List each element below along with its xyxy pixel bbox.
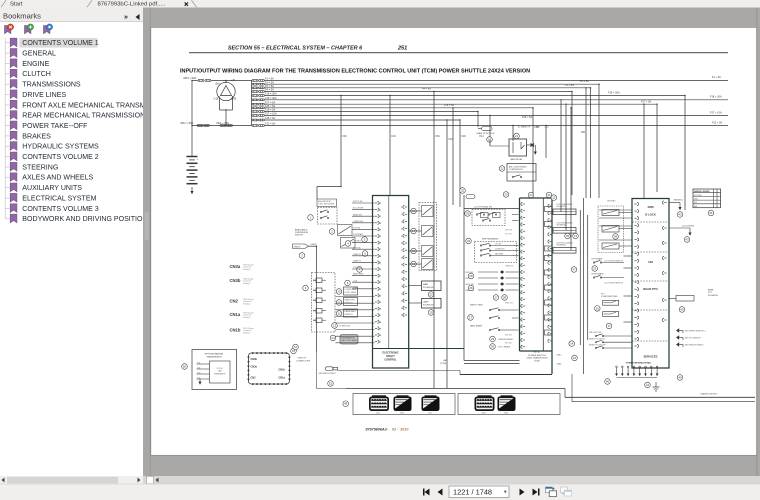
EDC internal divider: [388, 196, 390, 349]
svg-text:DRAFT PIN: DRAFT PIN: [345, 299, 356, 302]
chain detection sensor: [482, 127, 493, 131]
callout 25: [468, 273, 474, 279]
svg-text:CN1a: CN1a: [230, 312, 241, 317]
svg-text:35: 35: [566, 234, 570, 238]
svg-text:(+D): (+D): [214, 98, 219, 101]
engine rpm switch block S1: [317, 199, 337, 207]
wire from fuse MF3 down to battery rail: [191, 81, 193, 126]
callout 12: [336, 311, 342, 317]
callout 11: [336, 300, 342, 306]
bus wire F37: [265, 115, 729, 117]
svg-text:CN1b: CN1b: [557, 363, 562, 365]
svg-text:GND PTO SENSOR: GND PTO SENSOR: [685, 338, 702, 340]
svg-text:GENERAL: GENERAL: [22, 51, 56, 58]
svg-text:28: 28: [503, 296, 507, 300]
svg-text:251: 251: [397, 46, 407, 52]
ground district connector: [326, 367, 334, 371]
pdf page: [151, 27, 757, 455]
svg-text:CLUTCH PEDAL SW: CLUTCH PEDAL SW: [474, 206, 492, 209]
connector photo CN3: [422, 397, 440, 412]
svg-text:FOOT BRAKE: FOOT BRAKE: [498, 346, 511, 349]
callout 38b: [613, 234, 619, 240]
svg-text:F64: F64: [436, 135, 441, 138]
callout 9: [303, 285, 309, 291]
wire trunk x316 down: [316, 246, 318, 352]
svg-text:Start: Start: [10, 2, 23, 8]
svg-text:48: 48: [344, 402, 348, 406]
ETC pin blocks: [545, 207, 553, 212]
svg-text:POSITION: POSITION: [353, 267, 362, 269]
relay KR1: [422, 206, 434, 217]
svg-text:FRONT AXLE MECHANICAL TRANSMIS: FRONT AXLE MECHANICAL TRANSMIS: [22, 102, 152, 109]
wire stub to EDC pin 33: [352, 222, 375, 224]
callout 37: [571, 267, 577, 273]
bookmarks sidebar background: [0, 8, 143, 485]
svg-text:SENSOR: SENSOR: [345, 314, 354, 316]
mode selector (gray): [340, 335, 358, 345]
svg-text:REAR: REAR: [708, 289, 714, 292]
wire stub to EDC pin 42: [352, 281, 375, 283]
wire stub to EDC pin 36: [352, 242, 375, 244]
svg-text:1221 / 1748: 1221 / 1748: [453, 488, 492, 497]
svg-text:CN2: CN2: [428, 412, 431, 414]
svg-text:F27 + 5A: F27 + 5A: [641, 100, 652, 103]
svg-text:RAISE RATE: RAISE RATE: [353, 273, 364, 276]
svg-text:14: 14: [331, 336, 335, 340]
nav: next page button: [520, 489, 525, 496]
callout 36: [573, 233, 579, 239]
bookmark item: CONTENTS VOLUME 3: [5, 207, 9, 209]
wire drop x=685: [684, 96, 686, 211]
wire drop x=546: [545, 126, 547, 159]
callout 13c: [592, 266, 598, 272]
svg-text:F37 + 10A: F37 + 10A: [710, 111, 722, 114]
svg-text:CN2: CN2: [230, 298, 239, 303]
svg-text:13: 13: [593, 267, 597, 271]
wire alternator right leg: [232, 97, 234, 110]
callout 24: [528, 192, 534, 198]
nav: page number box: [449, 486, 509, 498]
bookmark item: CONTENTS VOLUME 1: [5, 42, 9, 44]
svg-text:29: 29: [491, 337, 495, 341]
fuse F2: [252, 83, 254, 85]
callout 8: [345, 280, 351, 286]
wire stub to EDC pin: [336, 342, 375, 344]
wire stub to EDC pin: [336, 309, 375, 311]
speed sensor connector: [293, 244, 309, 248]
svg-text:26: 26: [469, 286, 473, 290]
svg-text:F4 = 5A: F4 = 5A: [422, 88, 431, 91]
wire stub to EDC pin: [336, 335, 375, 337]
svg-text:49: 49: [678, 376, 682, 380]
svg-text:4WD: 4WD: [647, 205, 653, 209]
svg-text:CN3b: CN3b: [230, 278, 241, 283]
fuse F1: [252, 80, 254, 82]
wire stub to EDC pin: [336, 322, 375, 324]
nav: new window icon: [546, 487, 553, 493]
svg-text:CN2: CN2: [251, 376, 257, 379]
bookmark item: CONTENTS VOLUME 2: [5, 156, 9, 158]
callout 20: [487, 137, 493, 143]
svg-text:19: 19: [429, 311, 433, 315]
gnd row 2: [676, 335, 679, 339]
callout 4: [345, 241, 351, 247]
wire ETC to solenoid: [552, 229, 553, 231]
svg-text:TRANSMISSIONS: TRANSMISSIONS: [22, 82, 81, 89]
svg-text:Polarity 5: Polarity 5: [243, 332, 251, 335]
bookmark item: POWER TAKE--OFF: [5, 125, 9, 127]
potentiometer P2: [316, 288, 322, 293]
sensor box B: [344, 298, 358, 306]
main relay K3: [509, 139, 527, 156]
wire stub to EDC pin: [336, 302, 375, 304]
svg-text:SOLENOID: SOLENOID: [423, 287, 434, 289]
potentiometer P5: [316, 318, 322, 323]
svg-text:Polarity 5: Polarity 5: [243, 268, 251, 271]
potentiometer P1: [316, 278, 322, 283]
header rule: [189, 52, 728, 54]
callout 31: [546, 192, 552, 198]
svg-text:F12: F12: [449, 138, 454, 141]
svg-text:D-LOCK: D-LOCK: [645, 213, 656, 217]
svg-text:4WD SW: 4WD SW: [505, 230, 512, 232]
svg-text:F16: F16: [343, 135, 348, 138]
bookmark item: GENERAL: [5, 52, 9, 54]
4WD/PTO control unit box: [632, 199, 669, 369]
fuse F12: [252, 125, 254, 127]
ETC control unit outline: [520, 197, 553, 199]
bus wire F28: [265, 119, 461, 121]
svg-text:MAIN RELAY: MAIN RELAY: [511, 158, 524, 161]
callout 1: [308, 215, 314, 221]
svg-text:34: 34: [467, 239, 471, 243]
callout 21: [514, 133, 520, 139]
svg-text:REAR PTO: REAR PTO: [643, 287, 658, 291]
svg-text:PTO: PTO: [708, 292, 712, 294]
callout 20b: [428, 292, 434, 298]
shift switch 1: [480, 245, 481, 246]
svg-text:CN2: CN2: [197, 367, 200, 369]
wire drop x=571: [570, 108, 572, 251]
callout 32: [460, 188, 466, 194]
bookmark item: BODYWORK AND DRIVING POSITION: [5, 218, 9, 220]
svg-text:17: 17: [469, 316, 473, 320]
callout 48: [343, 401, 349, 407]
svg-text:Polarity 5: Polarity 5: [243, 282, 251, 285]
svg-text:CN3a: CN3a: [230, 264, 241, 269]
callout 7: [357, 267, 363, 273]
svg-text:CONTENTS VOLUME 1: CONTENTS VOLUME 1: [22, 40, 98, 47]
svg-text:02 – 2010: 02 – 2010: [392, 428, 409, 432]
svg-text:REAR PTO SW ON: REAR PTO SW ON: [589, 338, 605, 341]
svg-text:WIRING LEGEND: WIRING LEGEND: [694, 191, 710, 193]
svg-text:SETUP SW: SETUP SW: [353, 201, 363, 203]
callout 5: [362, 237, 368, 243]
bookmark item: AUXILIARY UNITS: [5, 187, 9, 189]
svg-text:LOWER SW: LOWER SW: [353, 221, 363, 223]
svg-text:CN3b: CN3b: [504, 412, 508, 414]
svg-text:GROUND DISTRICT: GROUND DISTRICT: [319, 373, 337, 375]
wire ground district to rail: [338, 370, 461, 372]
svg-text:D-LOCK4SOL: D-LOCK4SOL: [682, 226, 696, 228]
callout 33: [465, 211, 471, 217]
wires top cluster: [489, 140, 491, 146]
callout 34: [466, 238, 472, 244]
fuse F16: [252, 95, 254, 97]
legend table: [693, 189, 721, 208]
pdf viewing area background: [151, 8, 760, 477]
svg-text:SOLENOID: SOLENOID: [557, 225, 567, 227]
svg-text:GND: GND: [353, 287, 358, 289]
bookmark item: TRANSMISSIONS: [5, 83, 9, 85]
bus wire F25: [265, 107, 534, 109]
svg-text:44: 44: [646, 383, 650, 387]
svg-text:POS/DRAFT: POS/DRAFT: [353, 233, 364, 236]
connector photos group 2: [458, 394, 560, 415]
svg-text:SIG GND: SIG GND: [353, 247, 361, 249]
ETC pin column: [521, 202, 523, 205]
svg-text:15: 15: [573, 356, 577, 360]
svg-text:TRAILER BRAKE: TRAILER BRAKE: [498, 338, 514, 341]
bookmark item: CLUTCH: [5, 73, 9, 75]
wire drop x=447: [446, 120, 448, 389]
4wd relay 1: [602, 210, 619, 216]
wire stub to EDC pin 31: [352, 209, 375, 211]
status bar: [0, 484, 760, 500]
4wd box pins right: [662, 201, 664, 204]
svg-text:»: »: [124, 14, 128, 21]
wire stub to EDC pin 34: [352, 228, 375, 230]
svg-text:CN1b: CN1b: [230, 327, 241, 332]
svg-text:F25 = 5A: F25 = 5A: [444, 104, 455, 107]
bus wire F2: [265, 83, 600, 85]
svg-text:F18 + 30A: F18 + 30A: [710, 96, 722, 99]
panel splitter: [143, 8, 151, 477]
callout 14: [330, 335, 336, 341]
bookmark item: HYDRAULIC SYSTEMS: [5, 145, 9, 147]
4wd switch dotted box: [598, 206, 624, 253]
svg-text:CONTENTS VOLUME 2: CONTENTS VOLUME 2: [22, 154, 98, 161]
ETC internal divider: [542, 198, 544, 351]
svg-text:ENGINE: ENGINE: [22, 61, 49, 68]
bookmark item: ENGINE: [5, 63, 9, 65]
bookmarks panel header: [0, 8, 143, 22]
callout 22: [499, 166, 505, 172]
svg-text:GEAR SIG: GEAR SIG: [505, 265, 514, 268]
svg-text:CN3: CN3: [197, 372, 200, 374]
lamp solenoid box: [422, 299, 442, 309]
wire stub to EDC pin 35: [352, 235, 375, 237]
svg-text:(+W): (+W): [231, 98, 236, 101]
potentiometer P3: [316, 298, 322, 303]
wire stub to EDC pin: [336, 296, 375, 298]
svg-text:SOLENOID: SOLENOID: [423, 305, 434, 307]
svg-text:41: 41: [709, 211, 713, 215]
svg-text:COMPRESSOR: COMPRESSOR: [509, 169, 523, 171]
bookmark item: FRONT AXLE MECHANICAL TRANSMIS: [5, 104, 9, 106]
bus wire F19: [265, 111, 479, 113]
svg-text:POSIT. SENS: POSIT. SENS: [345, 292, 357, 294]
connector pinout view: [248, 353, 289, 384]
wire stub to EDC pin 37: [352, 248, 375, 250]
svg-text:CONTROL: CONTROL: [384, 359, 397, 362]
svg-text:GND: GND: [694, 199, 699, 201]
bus wire F4: [265, 91, 573, 93]
callout 30: [490, 344, 496, 350]
tab: Start: [1, 0, 6, 7]
node F16 corner into switch cluster: [317, 186, 341, 188]
svg-text:8767993bC-Linked pdf.....: 8767993bC-Linked pdf.....: [98, 2, 166, 8]
svg-text:(POWER SHUTTLE: (POWER SHUTTLE: [528, 355, 547, 357]
callout 15: [291, 348, 297, 354]
connector photos group 1: [353, 394, 455, 415]
svg-text:HM: HM: [648, 260, 653, 264]
svg-text:SLIP SW: SLIP SW: [353, 228, 361, 230]
callout 17b: [468, 315, 474, 321]
svg-text:F12 + 5A: F12 + 5A: [712, 121, 723, 124]
svg-text:LAP: LAP: [443, 359, 448, 362]
callout 3: [299, 253, 305, 259]
callout 14c: [569, 341, 575, 347]
svg-text:Bookmarks: Bookmarks: [3, 12, 41, 21]
svg-text:BODYWORK AND DRIVING POSITION: BODYWORK AND DRIVING POSITION: [22, 216, 147, 223]
relay KR3: [422, 246, 434, 257]
ETC pin column right edge: [548, 204, 550, 207]
wire drop x=513: [512, 126, 514, 140]
wire stub to EDC pin 30: [352, 202, 375, 204]
svg-text:SYSTEM: SYSTEM: [694, 195, 702, 197]
wire stub to EDC pin 43: [352, 288, 375, 290]
svg-text:MAIN: MAIN: [423, 283, 429, 286]
wire stub to EDC pin 41: [352, 275, 375, 277]
potentiometer P4: [316, 309, 322, 314]
fuse F28: [252, 119, 254, 121]
svg-text:BRAKES: BRAKES: [22, 133, 51, 140]
wire stub to EDC pin 38: [352, 255, 375, 257]
svg-text:INPUT/OUTPUT WIRING DIAGRAM FO: INPUT/OUTPUT WIRING DIAGRAM FOR THE TRAN…: [180, 69, 530, 75]
callout 51: [293, 344, 299, 350]
svg-text:22: 22: [500, 167, 504, 171]
svg-text:B+ WAKE UP: B+ WAKE UP: [518, 126, 531, 129]
fuse F25: [252, 107, 254, 109]
pgnd comb: [616, 366, 618, 368]
wire drop x=490: [489, 116, 491, 141]
svg-text:25: 25: [469, 274, 473, 278]
pdf horizontal scrollbar: [143, 476, 760, 484]
svg-text:(TCM): (TCM): [534, 360, 540, 362]
ground d-lock: [688, 233, 691, 236]
bookmark item: REAR MECHANICAL TRANSMISSION: [5, 114, 9, 116]
with mechanical transmission box: [192, 350, 237, 390]
fuse F27: [252, 103, 254, 105]
relay KR4: [422, 259, 434, 270]
callout 28: [502, 295, 508, 301]
svg-text:+ (X): + (X): [544, 127, 549, 129]
svg-text:12: 12: [552, 196, 556, 200]
wire drop x=390: [389, 96, 391, 196]
section divider dashed lines: [632, 221, 669, 223]
alternator G: [217, 82, 235, 100]
svg-text:31: 31: [547, 193, 551, 197]
bookmark item: AXLES AND WHEELS: [5, 176, 9, 178]
svg-text:87679606A2–: 87679606A2–: [366, 428, 389, 432]
svg-text:PED SIG: PED SIG: [505, 343, 513, 345]
svg-text:12: 12: [337, 312, 341, 316]
svg-text:DLK SW: DLK SW: [505, 234, 512, 236]
wake-up connector: [466, 195, 475, 199]
svg-text:50: 50: [183, 365, 187, 369]
svg-text:16: 16: [596, 306, 600, 310]
svg-text:CN1a: CN1a: [279, 376, 286, 379]
svg-text:27: 27: [494, 296, 498, 300]
diode D1: [527, 144, 534, 146]
svg-text:+30: +30: [231, 79, 236, 82]
svg-text:GND SPEED SENSOR (-): GND SPEED SENSOR (-): [685, 331, 706, 333]
svg-text:14: 14: [570, 342, 574, 346]
sensor box A: [344, 287, 358, 295]
sensor box C: [344, 309, 358, 317]
svg-text:F14: F14: [480, 135, 485, 138]
svg-text:CN3b: CN3b: [251, 358, 258, 361]
wire ETC to solenoid: [552, 249, 553, 251]
tab bar: [0, 0, 760, 8]
EDC inner bottom rail: [373, 348, 465, 350]
wire bus left of ETC: [463, 195, 465, 361]
svg-text:52: 52: [329, 382, 333, 386]
callout 44: [645, 382, 651, 388]
window right edge strip: [756, 8, 758, 477]
svg-text:DOWN LEV: DOWN LEV: [495, 249, 505, 251]
relay K1: [338, 225, 353, 236]
svg-text:CN1: CN1: [197, 362, 200, 364]
tab: document (active): [87, 0, 92, 7]
wire alternator to top bus: [225, 81, 227, 83]
svg-text:UP LEV: UP LEV: [495, 244, 502, 246]
svg-text:TMF LIMIT SW: TMF LIMIT SW: [589, 332, 601, 334]
svg-text:POWER TAKE--OFF: POWER TAKE--OFF: [22, 123, 88, 130]
wire drop x=566: [565, 104, 567, 230]
nav: duplicate window icon (disabled): [561, 487, 568, 493]
svg-text:RAISE RATE: RAISE RATE: [345, 310, 357, 313]
svg-text:SWITCHES: SWITCHES: [608, 296, 618, 298]
svg-text:HAND BRAKE: HAND BRAKE: [470, 325, 483, 328]
wire stub to EDC pin 39: [352, 261, 375, 263]
bus wire F27: [265, 103, 658, 105]
svg-text:VIEW OF: VIEW OF: [298, 358, 307, 360]
clutch pedal switch group: [472, 210, 505, 226]
svg-text:F3 + 5A: F3 + 5A: [565, 84, 574, 87]
callout 45: [679, 307, 685, 313]
svg-text:+RAMP: +RAMP: [310, 243, 317, 246]
air conditioning compressor: [507, 164, 536, 182]
svg-text:+ 5V REG (P5): + 5V REG (P5): [338, 326, 351, 328]
svg-text:F2 + 5A: F2 + 5A: [580, 80, 589, 83]
svg-text:STEERING: STEERING: [22, 164, 58, 171]
selected item highlight: [20, 38, 98, 48]
toolbar: add bookmark icon: [25, 26, 31, 34]
connector photo CN5: [498, 397, 516, 412]
svg-text:RIGHT BRAKE: RIGHT BRAKE: [592, 272, 605, 275]
svg-text:MF3 + 50A: MF3 + 50A: [184, 76, 197, 80]
svg-text:SHUTTLE LEVER: SHUTTLE LEVER: [342, 340, 358, 342]
svg-text:F1 + 5A: F1 + 5A: [712, 76, 721, 79]
svg-text:SWITCH: SWITCH: [295, 235, 303, 237]
svg-text:HM: HM: [581, 131, 585, 134]
svg-text:CN1a: CN1a: [376, 412, 380, 414]
svg-text:SPEED: SPEED: [294, 246, 301, 248]
callout 16: [411, 208, 417, 214]
svg-text:DRAFT A: DRAFT A: [353, 253, 361, 256]
